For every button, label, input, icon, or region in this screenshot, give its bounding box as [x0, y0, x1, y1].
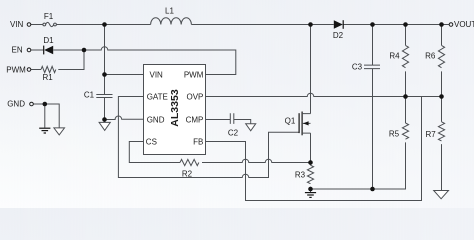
svg-text:R3: R3: [295, 171, 306, 180]
svg-text:R1: R1: [42, 73, 53, 82]
svg-text:C3: C3: [352, 63, 363, 72]
svg-text:VIN: VIN: [10, 20, 24, 29]
svg-text:R2: R2: [182, 170, 193, 179]
svg-text:L1: L1: [165, 7, 174, 16]
svg-text:R5: R5: [389, 129, 400, 138]
svg-text:D2: D2: [333, 31, 344, 40]
svg-text:FB: FB: [193, 138, 203, 147]
svg-text:CMP: CMP: [186, 116, 204, 125]
svg-text:F1: F1: [44, 12, 54, 21]
svg-text:GND: GND: [147, 116, 165, 125]
svg-text:AL3353: AL3353: [169, 89, 181, 127]
svg-text:R6: R6: [425, 51, 436, 60]
svg-text:PWM: PWM: [184, 71, 204, 80]
svg-text:R4: R4: [389, 51, 400, 60]
svg-text:GND: GND: [7, 100, 25, 109]
svg-text:D1: D1: [43, 36, 54, 45]
svg-text:Q1: Q1: [285, 117, 296, 126]
svg-text:OVP: OVP: [186, 93, 203, 102]
svg-text:PWM: PWM: [6, 66, 26, 75]
svg-text:VOUT: VOUT: [454, 20, 474, 29]
svg-text:C1: C1: [84, 91, 95, 100]
svg-text:VIN: VIN: [150, 71, 164, 80]
svg-text:EN: EN: [12, 46, 23, 55]
svg-text:GATE: GATE: [147, 93, 168, 102]
svg-text:R7: R7: [425, 130, 436, 139]
svg-text:CS: CS: [146, 138, 157, 147]
svg-text:C2: C2: [228, 128, 239, 137]
